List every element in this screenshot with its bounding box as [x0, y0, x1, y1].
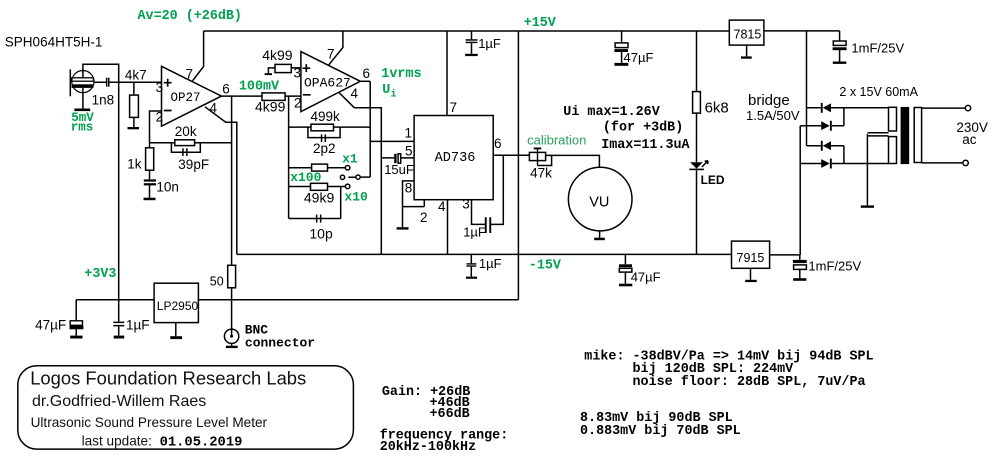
svg-text:AD736: AD736	[435, 151, 476, 166]
svg-text:1µF: 1µF	[126, 318, 150, 333]
svg-text:4k99: 4k99	[255, 99, 286, 115]
svg-text:5: 5	[405, 143, 413, 158]
svg-text:7915: 7915	[737, 251, 765, 265]
svg-text:x1: x1	[342, 151, 358, 166]
svg-text:1.5A/50V: 1.5A/50V	[746, 108, 800, 123]
svg-text:2: 2	[420, 210, 428, 225]
svg-text:1µF: 1µF	[478, 36, 501, 51]
svg-text:1mF/25V: 1mF/25V	[808, 259, 861, 274]
svg-text:2 x 15V 60mA: 2 x 15V 60mA	[839, 85, 918, 99]
svg-text:1n8: 1n8	[92, 92, 115, 107]
svg-text:OP27: OP27	[171, 91, 201, 105]
svg-text:U: U	[382, 83, 390, 98]
svg-text:4k7: 4k7	[125, 67, 147, 82]
svg-text:4k99: 4k99	[262, 47, 293, 63]
svg-text:20kHz-100kHz: 20kHz-100kHz	[380, 440, 476, 455]
svg-text:last update:: last update:	[82, 434, 152, 449]
svg-text:1mF/25V: 1mF/25V	[851, 41, 904, 56]
svg-text:1µF: 1µF	[479, 256, 502, 271]
svg-text:3: 3	[294, 65, 302, 80]
svg-text:Ultrasonic Sound Pressure Leve: Ultrasonic Sound Pressure Level Meter	[31, 415, 268, 430]
svg-text:ac: ac	[962, 132, 977, 147]
svg-text:100mV: 100mV	[239, 80, 280, 95]
svg-text:1k: 1k	[127, 157, 142, 172]
svg-text:1vrms: 1vrms	[381, 67, 421, 82]
svg-text:0.883mV bij 70dB SPL: 0.883mV bij 70dB SPL	[580, 424, 741, 439]
svg-text:6: 6	[494, 136, 502, 151]
svg-text:39pF: 39pF	[178, 157, 209, 172]
svg-text:dr.Godfried-Willem Raes: dr.Godfried-Willem Raes	[32, 393, 206, 410]
svg-text:10p: 10p	[309, 226, 333, 242]
svg-text:3: 3	[156, 80, 164, 95]
svg-text:OPA627: OPA627	[304, 75, 351, 90]
svg-text:3: 3	[462, 196, 470, 211]
svg-text:connector: connector	[245, 336, 315, 351]
svg-text:+66dB: +66dB	[430, 407, 470, 422]
svg-text:6: 6	[363, 66, 371, 81]
svg-text:15uF: 15uF	[384, 162, 414, 177]
svg-text:2: 2	[294, 96, 302, 111]
svg-text:7: 7	[327, 47, 335, 62]
svg-text:LP2950: LP2950	[157, 299, 199, 313]
svg-text:499k: 499k	[311, 109, 341, 124]
svg-text:6: 6	[222, 82, 230, 97]
svg-text:6k8: 6k8	[705, 99, 729, 116]
svg-text:8: 8	[405, 181, 413, 196]
svg-text:50: 50	[210, 275, 224, 289]
svg-text:10n: 10n	[156, 180, 179, 195]
svg-text:4: 4	[210, 100, 218, 115]
svg-text:x100: x100	[290, 170, 321, 185]
svg-text:+3V3: +3V3	[84, 267, 116, 282]
svg-text:47µF: 47µF	[35, 318, 66, 333]
svg-text:20k: 20k	[175, 124, 197, 139]
svg-text:VU: VU	[589, 195, 609, 211]
svg-text:Logos Foundation Research Labs: Logos Foundation Research Labs	[30, 368, 306, 389]
svg-text:bridge: bridge	[748, 92, 790, 109]
svg-text:47µF: 47µF	[631, 269, 661, 284]
svg-text:Imax=11.3uA: Imax=11.3uA	[601, 138, 690, 153]
svg-text:2: 2	[156, 110, 164, 125]
svg-text:(for +3dB): (for +3dB)	[603, 121, 683, 136]
svg-text:+15V: +15V	[524, 16, 557, 31]
svg-text:Av=20 (+26dB): Av=20 (+26dB)	[138, 9, 242, 24]
svg-text:rms: rms	[71, 120, 94, 134]
svg-text:49k9: 49k9	[304, 190, 335, 206]
svg-text:7: 7	[450, 100, 458, 115]
svg-text:7815: 7815	[734, 28, 762, 42]
svg-text:SPH064HT5H-1: SPH064HT5H-1	[5, 35, 103, 50]
svg-text:i: i	[391, 89, 397, 101]
svg-text:47k: 47k	[530, 165, 552, 180]
svg-text:Ui max=1.26V: Ui max=1.26V	[563, 105, 660, 120]
svg-text:1µF: 1µF	[463, 224, 486, 239]
svg-text:noise floor: 28dB SPL, 7uV/Pa: noise floor: 28dB SPL, 7uV/Pa	[633, 375, 866, 390]
svg-text:2p2: 2p2	[313, 141, 336, 156]
svg-text:7: 7	[186, 67, 194, 82]
svg-text:4: 4	[438, 199, 446, 214]
svg-text:01.05.2019: 01.05.2019	[160, 435, 243, 450]
svg-text:1: 1	[405, 126, 413, 141]
svg-text:4: 4	[351, 86, 359, 101]
svg-text:LED: LED	[701, 173, 725, 187]
svg-text:-15V: -15V	[529, 259, 562, 274]
svg-text:calibration: calibration	[527, 132, 586, 147]
svg-text:x10: x10	[344, 189, 368, 204]
svg-text:47µF: 47µF	[624, 50, 654, 65]
